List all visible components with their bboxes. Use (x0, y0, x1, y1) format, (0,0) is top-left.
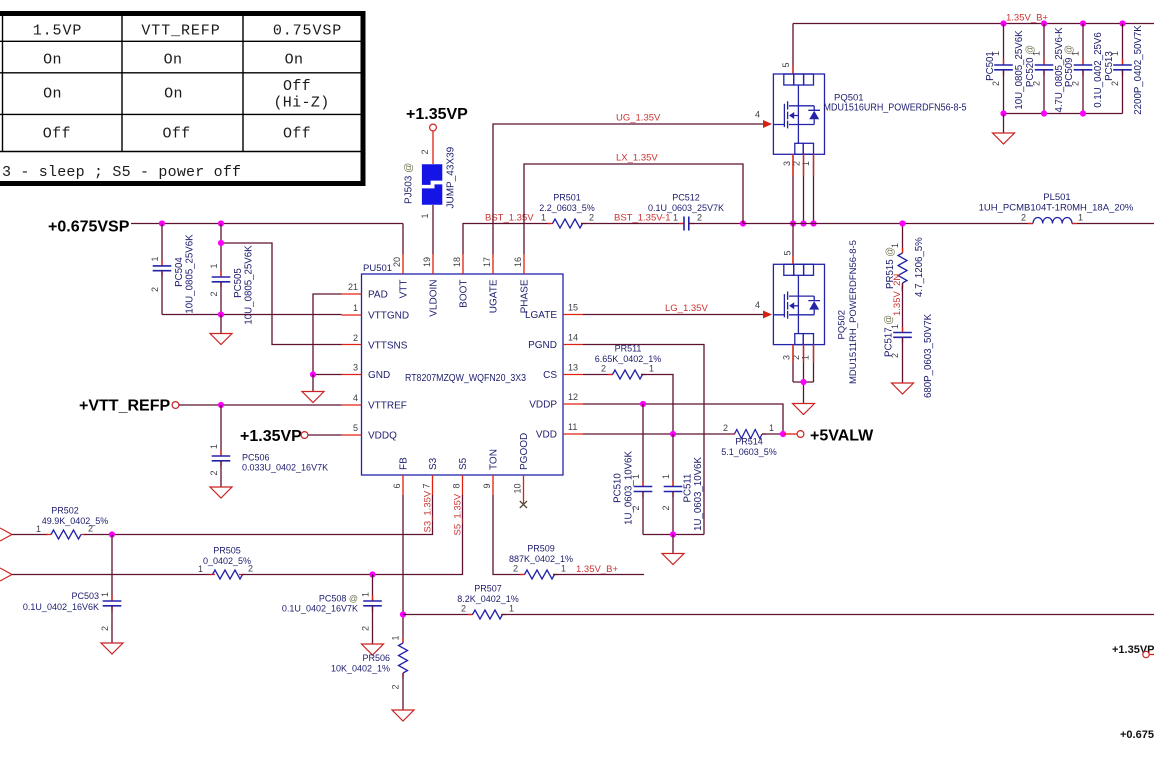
svg-text:1UH_PCMB104T-1R0MH_18A_20%: 1UH_PCMB104T-1R0MH_18A_20% (979, 203, 1134, 214)
svg-text:Off: Off (283, 78, 311, 95)
svg-text:11: 11 (568, 422, 577, 432)
wire VDDQ (308, 434, 342, 436)
svg-text:1: 1 (198, 564, 203, 574)
wire FB line to right edge (502, 614, 1154, 616)
svg-text:PR507: PR507 (474, 584, 502, 594)
svg-text:S5: S5 (458, 457, 469, 470)
resistor PR511 (CS) (583, 344, 673, 435)
svg-text:PU501: PU501 (363, 263, 392, 274)
ground below PR506 (392, 710, 414, 721)
svg-text:PC517 @: PC517 @ (884, 315, 895, 357)
svg-text:S5_1.35V: S5_1.35V (453, 493, 464, 535)
svg-text:2: 2 (661, 505, 671, 510)
svg-text:1.5VP: 1.5VP (33, 23, 83, 40)
junction dots on 0.675 rail (159, 220, 165, 226)
svg-text:1: 1 (361, 592, 371, 597)
capacitor PC503 (23, 535, 121, 644)
svg-text:1: 1 (100, 592, 110, 597)
svg-text:2: 2 (150, 287, 160, 292)
off-page connector (left, S5 net) (0, 568, 12, 581)
resistor PR514 (721, 423, 783, 457)
svg-text:1.35V_B+: 1.35V_B+ (576, 564, 618, 575)
svg-text:+VTT_REFP: +VTT_REFP (79, 398, 170, 415)
svg-text:1: 1 (673, 213, 678, 223)
svg-text:1: 1 (209, 263, 219, 268)
svg-text:MDU1516URH_POWERDFN56-8-5: MDU1516URH_POWERDFN56-8-5 (824, 103, 967, 114)
svg-text:2: 2 (391, 684, 401, 689)
svg-text:1: 1 (890, 243, 900, 248)
svg-text:PC504: PC504 (174, 257, 185, 287)
svg-text:1: 1 (209, 444, 219, 449)
capacitor PC510 (613, 404, 653, 535)
svg-text:On: On (164, 52, 183, 69)
svg-text:0_0402_5%: 0_0402_5% (203, 556, 251, 566)
svg-text:2: 2 (890, 353, 900, 358)
wire VDDP pin12 right, down to +5VALW node (583, 404, 783, 434)
svg-text:BOOT: BOOT (459, 280, 470, 308)
svg-text:2: 2 (461, 604, 466, 614)
wire terminal to jumper (432, 131, 434, 164)
svg-text:1.35V_2N: 1.35V_2N (892, 274, 903, 316)
svg-text:1: 1 (36, 524, 41, 534)
svg-text:18: 18 (452, 257, 462, 267)
svg-text:VDDQ: VDDQ (368, 431, 397, 442)
svg-text:FB: FB (399, 457, 410, 470)
svg-text:10: 10 (513, 483, 523, 493)
svg-text:14: 14 (568, 333, 578, 343)
wire cap bottom rail (1004, 113, 1123, 115)
svg-text:5: 5 (781, 62, 791, 67)
wire UG net: pin17 UGATE to PQ501 gate (493, 124, 763, 254)
resistor PR509 (509, 544, 644, 580)
wire LX net: pin16 PHASE up, right, down to phase rail (524, 164, 743, 254)
capacitor PC501 (985, 24, 1025, 114)
wire ground drop (1003, 114, 1005, 134)
svg-text:2: 2 (631, 505, 641, 510)
terminal circle +5VALW (797, 431, 804, 438)
svg-text:2: 2 (248, 564, 253, 574)
svg-text:PC503: PC503 (71, 591, 99, 601)
wire FB pin 6 down (402, 495, 404, 643)
svg-text:2: 2 (697, 213, 702, 223)
svg-text:+0.675VSP: +0.675VSP (48, 219, 130, 236)
svg-text:BST_1.35V-1: BST_1.35V-1 (614, 213, 671, 224)
capacitor PC512 (648, 193, 743, 231)
svg-text:PR501: PR501 (553, 193, 581, 203)
wire PGND pin14 right and down to cap gnd rail (583, 345, 704, 535)
ground below PC503 (101, 643, 123, 654)
svg-text:4: 4 (755, 300, 760, 310)
svg-text:1: 1 (561, 564, 566, 574)
wire LG net: pin15 LGATE to PQ502 gate (583, 314, 763, 316)
capacitor PC517 (884, 313, 935, 398)
svg-text:2: 2 (513, 564, 518, 574)
terminal circle VTT_REFP (172, 402, 179, 409)
svg-text:20: 20 (392, 257, 402, 267)
svg-text:2.2_0603_5%: 2.2_0603_5% (539, 203, 595, 213)
ground (993, 133, 1015, 144)
svg-text:LX_1.35V: LX_1.35V (616, 153, 658, 164)
svg-text:1: 1 (1078, 213, 1083, 223)
svg-text:Off: Off (162, 126, 190, 143)
capacitor PC506 (209, 405, 328, 487)
wire phase rail to inductor and right edge (743, 223, 1154, 225)
svg-text:2: 2 (1032, 81, 1042, 86)
svg-text:21: 21 (348, 282, 358, 292)
resistor PR507 (403, 584, 519, 620)
svg-text:PHASE: PHASE (520, 279, 531, 313)
wire VTTSNS branch (221, 243, 342, 345)
svg-text:PC512: PC512 (672, 193, 700, 203)
svg-text:+1.35VP: +1.35VP (240, 428, 302, 445)
svg-text:2: 2 (353, 333, 358, 343)
resistor PR515 (from phase rail) (885, 224, 925, 332)
svg-text:5: 5 (353, 423, 358, 433)
svg-text:Off: Off (43, 126, 71, 143)
svg-text:887K_0402_1%: 887K_0402_1% (509, 554, 573, 564)
wire to right edge (1149, 654, 1154, 656)
no-connect X on PGOOD (520, 501, 527, 508)
svg-text:1: 1 (801, 355, 811, 360)
svg-text:2: 2 (723, 423, 728, 433)
wire ground drop below PC505 (220, 315, 222, 334)
svg-text:10K_0402_1%: 10K_0402_1% (331, 664, 390, 674)
wire BST net: pin18 BOOT up and right (463, 224, 551, 255)
input arrow PQ502 gate pin 4 (763, 311, 772, 319)
resistor PR505 (12, 546, 373, 580)
jumper PJ503 JUMP_43X39 (404, 146, 457, 218)
svg-text:0.1U_0402_16V6K: 0.1U_0402_16V6K (23, 602, 99, 612)
svg-text:1: 1 (1071, 51, 1081, 56)
svg-text:S3: S3 (428, 457, 439, 470)
svg-text:4: 4 (353, 393, 358, 403)
svg-text:(Hi-Z): (Hi-Z) (273, 95, 329, 112)
wire PQ502 sources to common and ground (793, 345, 814, 404)
svg-text:2: 2 (209, 470, 219, 475)
svg-text:4: 4 (755, 110, 760, 120)
svg-text:15: 15 (568, 303, 578, 313)
svg-text:8: 8 (452, 483, 462, 488)
svg-text:1: 1 (661, 474, 671, 479)
svg-text:6.65K_0402_1%: 6.65K_0402_1% (595, 354, 662, 364)
svg-text:2: 2 (209, 291, 219, 296)
svg-text:PC505: PC505 (233, 268, 244, 298)
svg-text:6: 6 (392, 483, 402, 488)
transistor PQ501 MDU1516URH (N-MOSFET w/ body diode) (773, 62, 966, 166)
svg-text:1: 1 (649, 364, 654, 374)
terminal circle +1.35VP top (430, 124, 437, 131)
wire PQ501 drain up to B+ rail (792, 24, 794, 74)
svg-text:CS: CS (543, 370, 557, 381)
svg-text:JUMP_43X39: JUMP_43X39 (446, 146, 457, 208)
svg-text:5.1_0603_5%: 5.1_0603_5% (721, 447, 777, 457)
wire PGOOD pin 10 stub (523, 495, 525, 505)
svg-text:PC508 @: PC508 @ (319, 594, 358, 604)
ground (302, 392, 324, 403)
ground below PQ502 (793, 404, 815, 415)
svg-text:0.1U_0603_25V7K: 0.1U_0603_25V7K (648, 203, 724, 213)
svg-text:Off: Off (283, 126, 311, 143)
svg-text:+0.675VSP: +0.675VSP (1120, 729, 1154, 741)
svg-text:2: 2 (100, 626, 110, 631)
svg-text:PGND: PGND (528, 340, 557, 351)
svg-text:1: 1 (631, 474, 641, 479)
svg-text:VDD: VDD (536, 430, 557, 441)
transistor PQ502 MDU1511RH (N-MOSFET w/ body diode) (773, 240, 859, 384)
svg-text:1: 1 (801, 161, 811, 166)
svg-text:PR506: PR506 (362, 653, 390, 663)
svg-text:10U_0805_25V6K: 10U_0805_25V6K (1014, 30, 1025, 110)
wire TON pin 9 (493, 495, 523, 575)
wire PQ501 sources down to phase rail (793, 154, 814, 224)
capacitor PC505 (209, 224, 255, 325)
table: power state truth table (cut off at left edge) (0, 14, 363, 184)
svg-text:LG_1.35V: LG_1.35V (665, 303, 708, 314)
wire cap bottom rail (PGND) (643, 534, 704, 536)
svg-text:2: 2 (88, 524, 93, 534)
svg-text:TON: TON (489, 449, 500, 470)
svg-text:3: 3 (353, 363, 358, 373)
svg-text:PC511: PC511 (682, 474, 693, 503)
svg-text:2: 2 (1021, 213, 1026, 223)
svg-text:16: 16 (513, 257, 523, 267)
svg-text:On: On (285, 52, 304, 69)
svg-text:2: 2 (991, 81, 1001, 86)
capacitor PC509 (1064, 24, 1104, 114)
svg-text:1: 1 (509, 604, 514, 614)
svg-text:S3_1.35V: S3_1.35V (423, 490, 434, 532)
svg-text:2: 2 (1110, 81, 1120, 86)
svg-text:On: On (43, 52, 62, 69)
ground (210, 334, 232, 345)
svg-text:VTTGND: VTTGND (368, 311, 409, 322)
svg-text:1: 1 (991, 51, 1001, 56)
svg-text:17: 17 (482, 257, 492, 267)
svg-text:1: 1 (769, 423, 774, 433)
off-page connector (left, S3 net) (0, 528, 12, 541)
svg-text:PR505: PR505 (213, 546, 241, 556)
svg-text:PR502: PR502 (51, 506, 79, 516)
svg-text:10U_0805_25V6K: 10U_0805_25V6K (185, 234, 196, 314)
capacitor PC504 (150, 224, 196, 315)
wire VDD pin11 right (583, 433, 734, 435)
svg-text:2: 2 (420, 149, 430, 154)
svg-text:On: On (43, 86, 62, 103)
wire PAD/GND loop (313, 294, 342, 375)
wire S3 net to pin 7 (112, 495, 433, 535)
ground (662, 554, 684, 565)
svg-text:12: 12 (568, 392, 578, 402)
svg-text:1: 1 (150, 256, 160, 261)
svg-text:8.2K_0402_1%: 8.2K_0402_1% (457, 594, 519, 604)
svg-text:PC510: PC510 (613, 473, 624, 503)
junction dot BST/phase (740, 220, 746, 226)
svg-text:PC506: PC506 (242, 453, 270, 463)
svg-text:10U_0805_25V6K: 10U_0805_25V6K (244, 245, 255, 325)
svg-text:3: 3 (782, 161, 792, 166)
svg-text:VDDP: VDDP (529, 400, 557, 411)
svg-text:VTT_REFP: VTT_REFP (141, 23, 220, 40)
inductor PL501 (979, 192, 1134, 224)
capacitor PC508 (282, 575, 382, 645)
svg-text:680P_0603_50V7K: 680P_0603_50V7K (923, 313, 934, 398)
svg-text:PAD: PAD (368, 290, 388, 301)
wire jumper to pin 19 VLDOIN (432, 205, 434, 254)
svg-text:1: 1 (1110, 51, 1120, 56)
input arrow PQ501 gate pin 4 (763, 120, 772, 128)
svg-text:UGATE: UGATE (489, 279, 500, 313)
svg-text:PR509: PR509 (527, 544, 555, 554)
svg-text:1: 1 (1032, 51, 1042, 56)
svg-text:2: 2 (589, 213, 594, 223)
svg-text:1: 1 (353, 303, 358, 313)
resistor PR501 (539, 193, 683, 229)
svg-text:VTTREF: VTTREF (368, 401, 407, 412)
wire +0.675VSP rail to pin20 VTT (131, 224, 403, 255)
svg-text:0.1U_0402_16V7K: 0.1U_0402_16V7K (282, 604, 358, 614)
svg-text:1: 1 (890, 324, 900, 329)
svg-text:PQ502: PQ502 (837, 310, 848, 340)
svg-text:1: 1 (391, 635, 401, 640)
svg-text:GND: GND (368, 370, 390, 381)
resistor PR502 (12, 506, 112, 540)
wire VTTREF (179, 404, 342, 406)
svg-text:9: 9 (482, 483, 492, 488)
svg-text:1U_0603_10V6K: 1U_0603_10V6K (623, 451, 634, 525)
wire S5 net to pin 8 (373, 495, 463, 575)
svg-text:19: 19 (422, 257, 432, 267)
svg-text:On: On (164, 86, 183, 103)
op-amp/controller IC PU501 RT8207MZQW (342, 254, 584, 495)
node 1.35V_B+ rail (top right) (793, 23, 1154, 25)
wire PQ502 drain up to phase rail (792, 224, 794, 265)
svg-text:7: 7 (422, 483, 432, 488)
wire to +5VALW terminal (783, 433, 797, 435)
svg-text:UG_1.35V: UG_1.35V (616, 113, 661, 124)
svg-text:PJ503 @: PJ503 @ (404, 163, 415, 204)
terminal circle +1.35VP (301, 432, 308, 439)
svg-text:0.033U_0402_16V7K: 0.033U_0402_16V7K (242, 463, 328, 473)
svg-text:4.7_1206_5%: 4.7_1206_5% (914, 237, 925, 297)
svg-text:PR514: PR514 (735, 437, 763, 447)
svg-text:2: 2 (601, 364, 606, 374)
svg-text:5: 5 (783, 250, 793, 255)
wire ground drop (672, 535, 674, 554)
capacitor PC511 (661, 434, 704, 535)
terminal circle bottom right (1143, 651, 1149, 657)
svg-text:13: 13 (568, 363, 578, 373)
svg-text:VTTSNS: VTTSNS (368, 341, 408, 352)
ground below PC506 (210, 487, 232, 498)
capacitor PC513 (1104, 24, 1144, 115)
svg-text:2: 2 (1071, 81, 1081, 86)
wire VTTGND rail (cap bottoms to pin 1) (162, 314, 342, 316)
svg-text:MDU1511RH_POWERDFN56-8-5: MDU1511RH_POWERDFN56-8-5 (848, 240, 859, 384)
svg-text:VTT: VTT (399, 280, 410, 299)
ground below PC517 (892, 383, 914, 394)
svg-text:1U_0603_10V6K: 1U_0603_10V6K (693, 457, 704, 531)
svg-text:0.1U_0402_25V6: 0.1U_0402_25V6 (1093, 32, 1104, 107)
svg-text:49.9K_0402_5%: 49.9K_0402_5% (42, 516, 109, 526)
svg-text:+5VALW: +5VALW (810, 428, 874, 445)
svg-text:+1.35VP: +1.35VP (406, 106, 468, 123)
svg-text:1: 1 (420, 213, 430, 218)
IC pin stubs (red) (342, 254, 584, 495)
resistor PR506 (331, 635, 408, 710)
svg-text:3: 3 (782, 355, 792, 360)
svg-text:RT8207MZQW_WQFN20_3X3: RT8207MZQW_WQFN20_3X3 (405, 373, 526, 384)
wire ground drop below GND node (312, 375, 314, 392)
capacitor PC520 (1025, 24, 1065, 114)
svg-text:2200P_0402_50V7K: 2200P_0402_50V7K (1133, 25, 1144, 115)
svg-text:3 - sleep ; S5 - power off: 3 - sleep ; S5 - power off (2, 164, 241, 181)
svg-text:PGOOD: PGOOD (519, 433, 530, 470)
svg-text:0.75VSP: 0.75VSP (273, 23, 342, 40)
svg-text:PR511: PR511 (615, 344, 642, 354)
svg-text:VLDOIN: VLDOIN (429, 280, 440, 317)
svg-text:1: 1 (541, 213, 546, 223)
ground below PC508 (362, 644, 384, 655)
svg-text:2: 2 (361, 626, 371, 631)
svg-text:PL501: PL501 (1043, 192, 1070, 203)
